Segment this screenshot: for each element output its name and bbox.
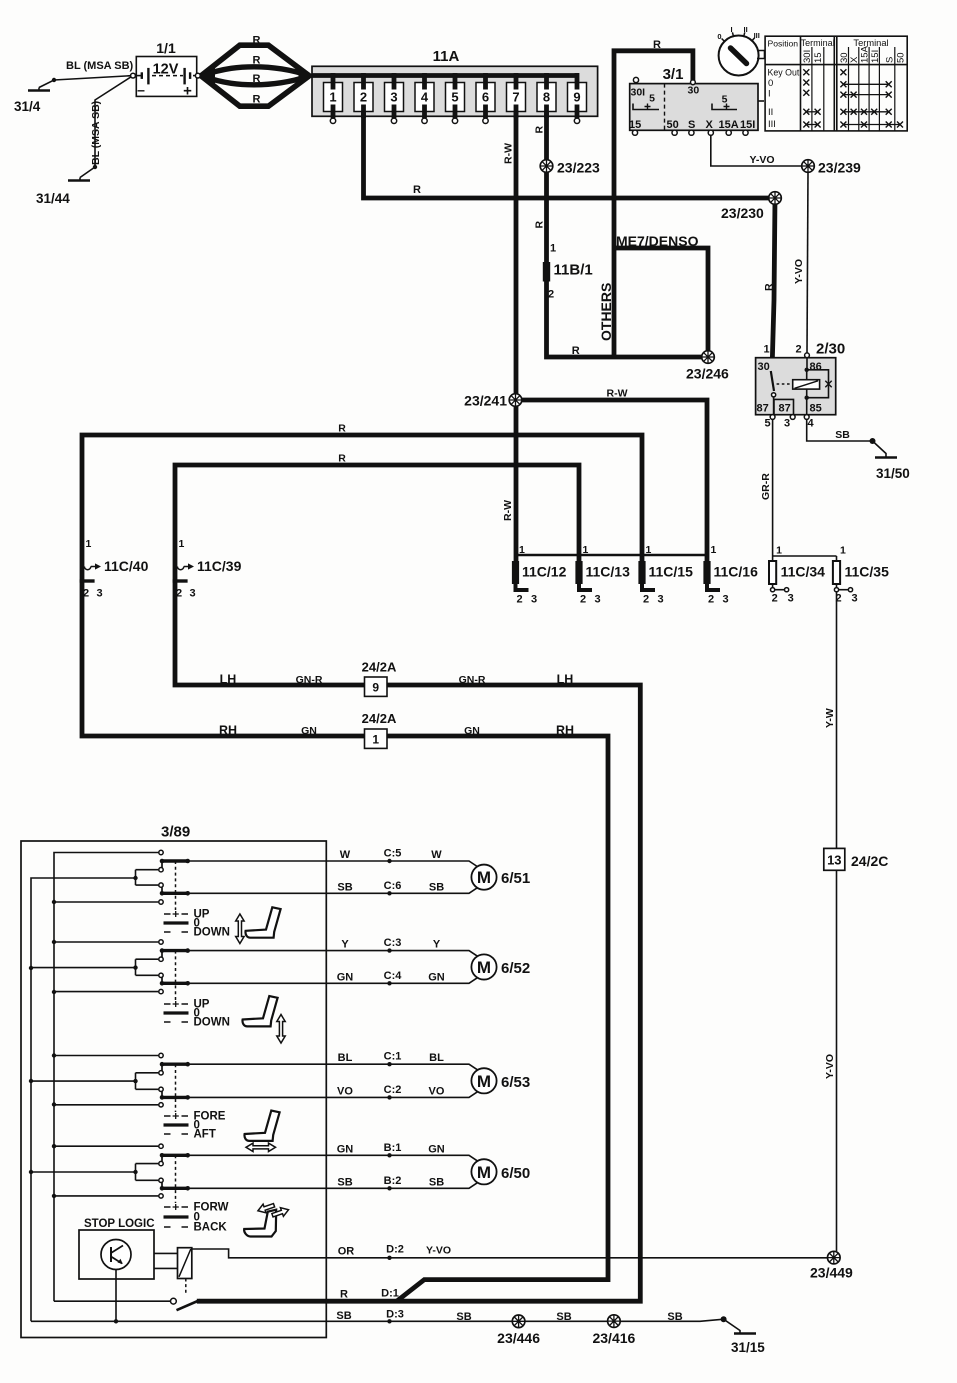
svg-text:LH: LH: [220, 673, 237, 687]
svg-text:DOWN: DOWN: [194, 927, 230, 939]
svg-text:24/2A: 24/2A: [362, 711, 397, 726]
svg-text:OR: OR: [338, 1246, 355, 1258]
svg-text:C:5: C:5: [384, 848, 402, 860]
svg-text:6/52: 6/52: [501, 960, 530, 977]
svg-text:SB: SB: [337, 1176, 352, 1188]
svg-text:2: 2: [795, 344, 801, 356]
svg-text:GN-R: GN-R: [296, 674, 323, 686]
svg-text:85: 85: [810, 403, 822, 415]
svg-text:III: III: [768, 119, 776, 130]
svg-text:7: 7: [512, 90, 519, 105]
svg-text:BACK: BACK: [194, 1222, 228, 1234]
svg-text:ME7/DENSO: ME7/DENSO: [616, 233, 699, 249]
svg-text:11C/40: 11C/40: [104, 558, 149, 574]
svg-text:R: R: [253, 55, 261, 67]
svg-text:Y-VO: Y-VO: [749, 154, 774, 166]
svg-text:Y: Y: [341, 939, 349, 951]
svg-text:2: 2: [580, 594, 586, 606]
svg-text:2: 2: [548, 289, 554, 301]
svg-text:GN: GN: [337, 971, 354, 983]
svg-text:R: R: [338, 453, 346, 465]
svg-text:30I: 30I: [802, 50, 813, 63]
svg-text:GN: GN: [301, 725, 317, 737]
svg-text:15A: 15A: [719, 119, 739, 131]
svg-text:LH: LH: [557, 673, 574, 687]
svg-text:M: M: [477, 868, 491, 887]
svg-text:8: 8: [543, 90, 550, 105]
svg-text:II: II: [744, 25, 748, 34]
svg-text:M: M: [477, 1072, 491, 1091]
svg-text:9: 9: [372, 681, 379, 695]
svg-text:1: 1: [646, 544, 652, 556]
svg-text:31/44: 31/44: [36, 191, 70, 206]
svg-text:DOWN: DOWN: [194, 1017, 230, 1029]
svg-text:Y-W: Y-W: [824, 708, 836, 728]
svg-text:S: S: [688, 119, 695, 131]
svg-text:6: 6: [482, 90, 489, 105]
svg-text:R-W: R-W: [607, 388, 628, 400]
svg-text:3/89: 3/89: [161, 824, 190, 841]
svg-text:6/51: 6/51: [501, 870, 530, 887]
svg-text:3: 3: [658, 594, 664, 606]
svg-text:RH: RH: [219, 724, 237, 738]
svg-text:87: 87: [757, 403, 769, 415]
svg-text:1: 1: [329, 90, 336, 105]
svg-text:3: 3: [852, 593, 858, 605]
svg-text:C:1: C:1: [384, 1051, 402, 1063]
svg-text:11C/12: 11C/12: [522, 564, 567, 580]
svg-text:31/50: 31/50: [876, 466, 910, 481]
svg-text:R: R: [338, 423, 346, 435]
svg-text:Y-VO: Y-VO: [824, 1054, 836, 1079]
svg-text:11C/13: 11C/13: [586, 564, 631, 580]
svg-text:Y-VO: Y-VO: [426, 1245, 451, 1257]
svg-text:23/449: 23/449: [810, 1265, 853, 1281]
svg-text:50: 50: [667, 119, 679, 131]
svg-text:23/416: 23/416: [592, 1330, 635, 1346]
svg-text:24/2C: 24/2C: [851, 853, 888, 869]
svg-text:3/1: 3/1: [663, 66, 684, 83]
svg-text:5: 5: [649, 93, 655, 105]
svg-text:2: 2: [643, 594, 649, 606]
svg-text:Position: Position: [768, 39, 799, 49]
svg-text:5: 5: [764, 418, 770, 430]
svg-text:X: X: [706, 119, 714, 131]
svg-text:11A: 11A: [433, 48, 460, 65]
svg-text:I: I: [768, 88, 771, 99]
svg-text:1: 1: [776, 545, 782, 557]
svg-text:87: 87: [779, 403, 791, 415]
svg-text:GN: GN: [428, 1143, 445, 1155]
svg-text:0: 0: [717, 32, 721, 41]
svg-text:23/223: 23/223: [557, 160, 600, 176]
svg-text:15I: 15I: [740, 119, 755, 131]
svg-text:VO: VO: [337, 1085, 353, 1097]
svg-text:D:3: D:3: [386, 1309, 404, 1321]
svg-text:R-W: R-W: [503, 143, 515, 164]
svg-text:SB: SB: [456, 1311, 471, 1323]
svg-text:GN: GN: [337, 1143, 354, 1155]
svg-text:RH: RH: [556, 724, 574, 738]
svg-text:GR-R: GR-R: [760, 473, 772, 500]
svg-text:R: R: [534, 221, 546, 229]
svg-text:23/230: 23/230: [721, 205, 764, 221]
svg-text:C:6: C:6: [384, 880, 402, 892]
svg-text:5: 5: [451, 90, 458, 105]
svg-text:Key Out: Key Out: [768, 68, 800, 78]
svg-text:SB: SB: [429, 1176, 444, 1188]
svg-text:11C/34: 11C/34: [781, 564, 826, 580]
svg-text:2: 2: [772, 593, 778, 605]
svg-text:Y: Y: [433, 939, 441, 951]
svg-text:SB: SB: [556, 1311, 571, 1323]
svg-text:C:4: C:4: [384, 970, 403, 982]
svg-text:SB: SB: [835, 429, 850, 441]
svg-text:30I: 30I: [631, 87, 646, 99]
svg-text:R: R: [572, 345, 580, 357]
svg-text:11C/39: 11C/39: [197, 558, 242, 574]
svg-text:1: 1: [372, 733, 379, 747]
svg-text:GN: GN: [464, 725, 480, 737]
svg-text:GN-R: GN-R: [459, 674, 486, 686]
svg-text:1: 1: [179, 538, 185, 550]
svg-text:II: II: [768, 107, 773, 118]
svg-text:1: 1: [583, 544, 589, 556]
svg-text:15: 15: [629, 119, 641, 131]
svg-text:11C/15: 11C/15: [649, 564, 694, 580]
svg-text:III: III: [754, 31, 760, 40]
svg-text:23/239: 23/239: [818, 160, 861, 176]
svg-text:M: M: [477, 958, 491, 977]
svg-text:30: 30: [758, 361, 770, 373]
svg-text:3: 3: [97, 588, 103, 600]
svg-text:11C/16: 11C/16: [714, 564, 759, 580]
svg-text:R: R: [253, 94, 261, 106]
svg-text:R: R: [413, 184, 421, 196]
svg-text:2: 2: [517, 594, 523, 606]
svg-text:R: R: [534, 126, 546, 134]
svg-text:2/30: 2/30: [816, 341, 845, 358]
svg-text:VO: VO: [429, 1085, 445, 1097]
svg-text:3: 3: [723, 594, 729, 606]
svg-text:1: 1: [840, 545, 846, 557]
svg-text:C:3: C:3: [384, 937, 402, 949]
svg-text:W: W: [431, 849, 442, 861]
svg-text:AFT: AFT: [194, 1129, 216, 1141]
svg-text:–: –: [137, 82, 145, 98]
svg-text:31/4: 31/4: [14, 99, 41, 114]
svg-text:3: 3: [784, 418, 790, 430]
svg-text:R: R: [653, 39, 661, 51]
svg-text:3: 3: [531, 594, 537, 606]
svg-text:86: 86: [810, 361, 822, 373]
svg-text:30: 30: [688, 85, 700, 97]
svg-text:31/15: 31/15: [731, 1340, 765, 1355]
svg-text:1: 1: [550, 243, 556, 255]
svg-text:50: 50: [896, 52, 907, 63]
svg-text:M: M: [477, 1163, 491, 1182]
svg-text:3: 3: [190, 588, 196, 600]
svg-text:I: I: [731, 25, 733, 34]
svg-text:1: 1: [519, 544, 525, 556]
svg-text:BL: BL: [429, 1052, 444, 1064]
svg-text:+: +: [183, 83, 192, 100]
svg-text:2: 2: [83, 588, 89, 600]
svg-text:Y-VO: Y-VO: [793, 259, 805, 284]
svg-text:B:1: B:1: [384, 1142, 402, 1154]
svg-text:24/2A: 24/2A: [362, 660, 397, 675]
svg-text:R: R: [253, 73, 261, 85]
svg-text:1/1: 1/1: [156, 40, 176, 56]
svg-text:13: 13: [827, 853, 841, 868]
svg-text:4: 4: [807, 418, 814, 430]
svg-text:R-W: R-W: [502, 500, 514, 521]
svg-text:OTHERS: OTHERS: [598, 283, 614, 341]
svg-text:2: 2: [176, 588, 182, 600]
svg-text:2: 2: [360, 90, 367, 105]
svg-text:1: 1: [86, 538, 92, 550]
svg-text:6/50: 6/50: [501, 1165, 530, 1182]
svg-text:BL (MSA SB): BL (MSA SB): [66, 60, 134, 72]
svg-text:3: 3: [390, 90, 397, 105]
svg-text:BL (MSA SB): BL (MSA SB): [90, 101, 102, 165]
svg-text:R: R: [253, 35, 261, 47]
svg-text:23/241: 23/241: [464, 393, 507, 409]
svg-text:SB: SB: [667, 1311, 682, 1323]
svg-text:D:1: D:1: [381, 1288, 399, 1300]
svg-text:BL: BL: [338, 1052, 353, 1064]
svg-text:4: 4: [421, 90, 429, 105]
svg-text:D:2: D:2: [386, 1244, 404, 1256]
svg-text:15: 15: [813, 52, 824, 63]
svg-text:15I: 15I: [870, 50, 881, 63]
svg-text:STOP LOGIC: STOP LOGIC: [84, 1218, 155, 1230]
svg-text:1: 1: [711, 544, 717, 556]
svg-text:1: 1: [763, 344, 769, 356]
svg-text:3: 3: [595, 594, 601, 606]
svg-text:SB: SB: [429, 881, 444, 893]
svg-text:6/53: 6/53: [501, 1074, 530, 1091]
svg-text:11B/1: 11B/1: [554, 262, 593, 279]
svg-text:23/246: 23/246: [686, 366, 729, 382]
svg-text:2: 2: [708, 594, 714, 606]
svg-text:W: W: [340, 849, 351, 861]
svg-text:B:2: B:2: [384, 1175, 402, 1187]
svg-text:GN: GN: [428, 971, 445, 983]
svg-text:SB: SB: [336, 1310, 351, 1322]
svg-text:9: 9: [573, 90, 580, 105]
svg-text:Terminal: Terminal: [801, 38, 835, 48]
svg-text:SB: SB: [337, 881, 352, 893]
svg-text:S: S: [884, 57, 895, 63]
svg-text:X: X: [849, 56, 860, 63]
svg-text:R: R: [763, 283, 775, 291]
svg-text:R: R: [340, 1289, 348, 1301]
svg-text:3: 3: [788, 593, 794, 605]
svg-text:C:2: C:2: [384, 1084, 402, 1096]
svg-text:11C/35: 11C/35: [845, 564, 890, 580]
svg-text:23/446: 23/446: [497, 1330, 540, 1346]
